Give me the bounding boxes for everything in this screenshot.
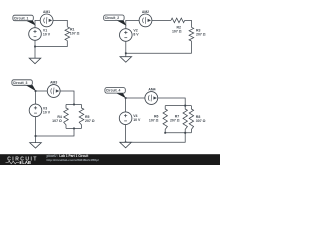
wire V2 top to AM2 (126, 20, 139, 28)
junction node (184, 105, 186, 107)
voltage source V3 (29, 104, 51, 117)
wire network to bottom (126, 133, 186, 143)
wire network to bottom (36, 128, 75, 136)
resistor R4 (52, 105, 68, 129)
wire corner to AM4 (126, 98, 145, 112)
wire V3 bottom (35, 117, 37, 136)
junction node (125, 52, 127, 54)
top rail (66, 104, 82, 106)
svg-text:10 V: 10 V (133, 118, 141, 122)
node Circuit_4 callout (105, 88, 126, 99)
ground (30, 136, 42, 148)
ammeter AM3 (47, 81, 60, 98)
junction node (125, 97, 127, 99)
svg-text:307 Ω: 307 Ω (196, 119, 206, 123)
ammeter AM4 (145, 87, 158, 104)
wire V2 bottom (125, 41, 127, 53)
svg-text:8 V: 8 V (133, 33, 139, 37)
node Circuit_2 callout (104, 15, 127, 26)
svg-text:107 Ω: 107 Ω (172, 29, 182, 33)
svg-text:AM1: AM1 (43, 10, 50, 14)
svg-text:207 Ω: 207 Ω (170, 119, 180, 123)
resistor R7 (170, 106, 187, 133)
junction node (34, 46, 36, 48)
svg-text:Circuit_1: Circuit_1 (14, 16, 29, 20)
junction node (73, 104, 75, 106)
svg-text:http://circuitlab.com/c/89346b: http://circuitlab.com/c/89346b2c4f65p/ (47, 158, 99, 162)
resistor R1 (65, 27, 80, 41)
voltage source V1 (29, 28, 51, 41)
wire V3 top (35, 91, 37, 104)
svg-text:10 V: 10 V (43, 33, 51, 37)
resistor R2 (171, 18, 185, 33)
svg-text:Circuit_4: Circuit_4 (106, 89, 121, 93)
svg-text:AM3: AM3 (50, 81, 57, 85)
svg-text:107 Ω: 107 Ω (149, 119, 159, 123)
junction node (125, 141, 127, 143)
wire AM2 to R2 (152, 19, 171, 21)
junction node (164, 132, 166, 134)
wire AM4 to network (158, 98, 186, 106)
wire junction to AM3 (36, 90, 48, 92)
resistor R5 (79, 105, 95, 129)
voltage source V4 (119, 112, 141, 125)
ground (120, 142, 132, 148)
resistor R6 (149, 106, 168, 133)
bottom rail (66, 127, 82, 129)
junction node top (35, 90, 37, 92)
svg-text:207 Ω: 207 Ω (85, 119, 95, 123)
junction node (184, 132, 186, 134)
ground (120, 53, 132, 62)
wire V1 top to AM1 (35, 20, 40, 27)
node Circuit_3 callout (12, 80, 36, 91)
wire R3 bottom to junction (126, 41, 192, 53)
wire AM3 to network (60, 91, 74, 105)
wire V1 bottom (34, 40, 36, 46)
voltage source V2 (120, 28, 140, 41)
resistor R3 (189, 27, 206, 41)
resistor R8 (189, 106, 205, 133)
wire R1 bottom to junction (35, 41, 67, 47)
svg-text:LAB: LAB (22, 160, 31, 165)
svg-text:Circuit_3: Circuit_3 (13, 81, 28, 85)
bottom rail (165, 132, 191, 134)
svg-text:107 Ω: 107 Ω (70, 32, 80, 36)
junction node (73, 128, 75, 130)
wire R2 to R3 (185, 20, 192, 27)
svg-text:Circuit_2: Circuit_2 (105, 16, 120, 20)
ground (29, 47, 41, 64)
svg-text:10 V: 10 V (43, 110, 51, 114)
svg-text:107 Ω: 107 Ω (52, 119, 62, 123)
ammeter AM1 (40, 10, 53, 27)
ammeter AM2 (139, 10, 152, 27)
svg-text:AM4: AM4 (148, 87, 155, 91)
wire AM1 to R1 (53, 20, 67, 26)
node Circuit_1 callout (13, 15, 36, 25)
svg-text:AM2: AM2 (142, 10, 149, 14)
junction node bottom (35, 135, 37, 137)
wire V4 bottom (125, 125, 127, 143)
svg-text:207 Ω: 207 Ω (196, 33, 206, 37)
top rail (165, 105, 191, 107)
